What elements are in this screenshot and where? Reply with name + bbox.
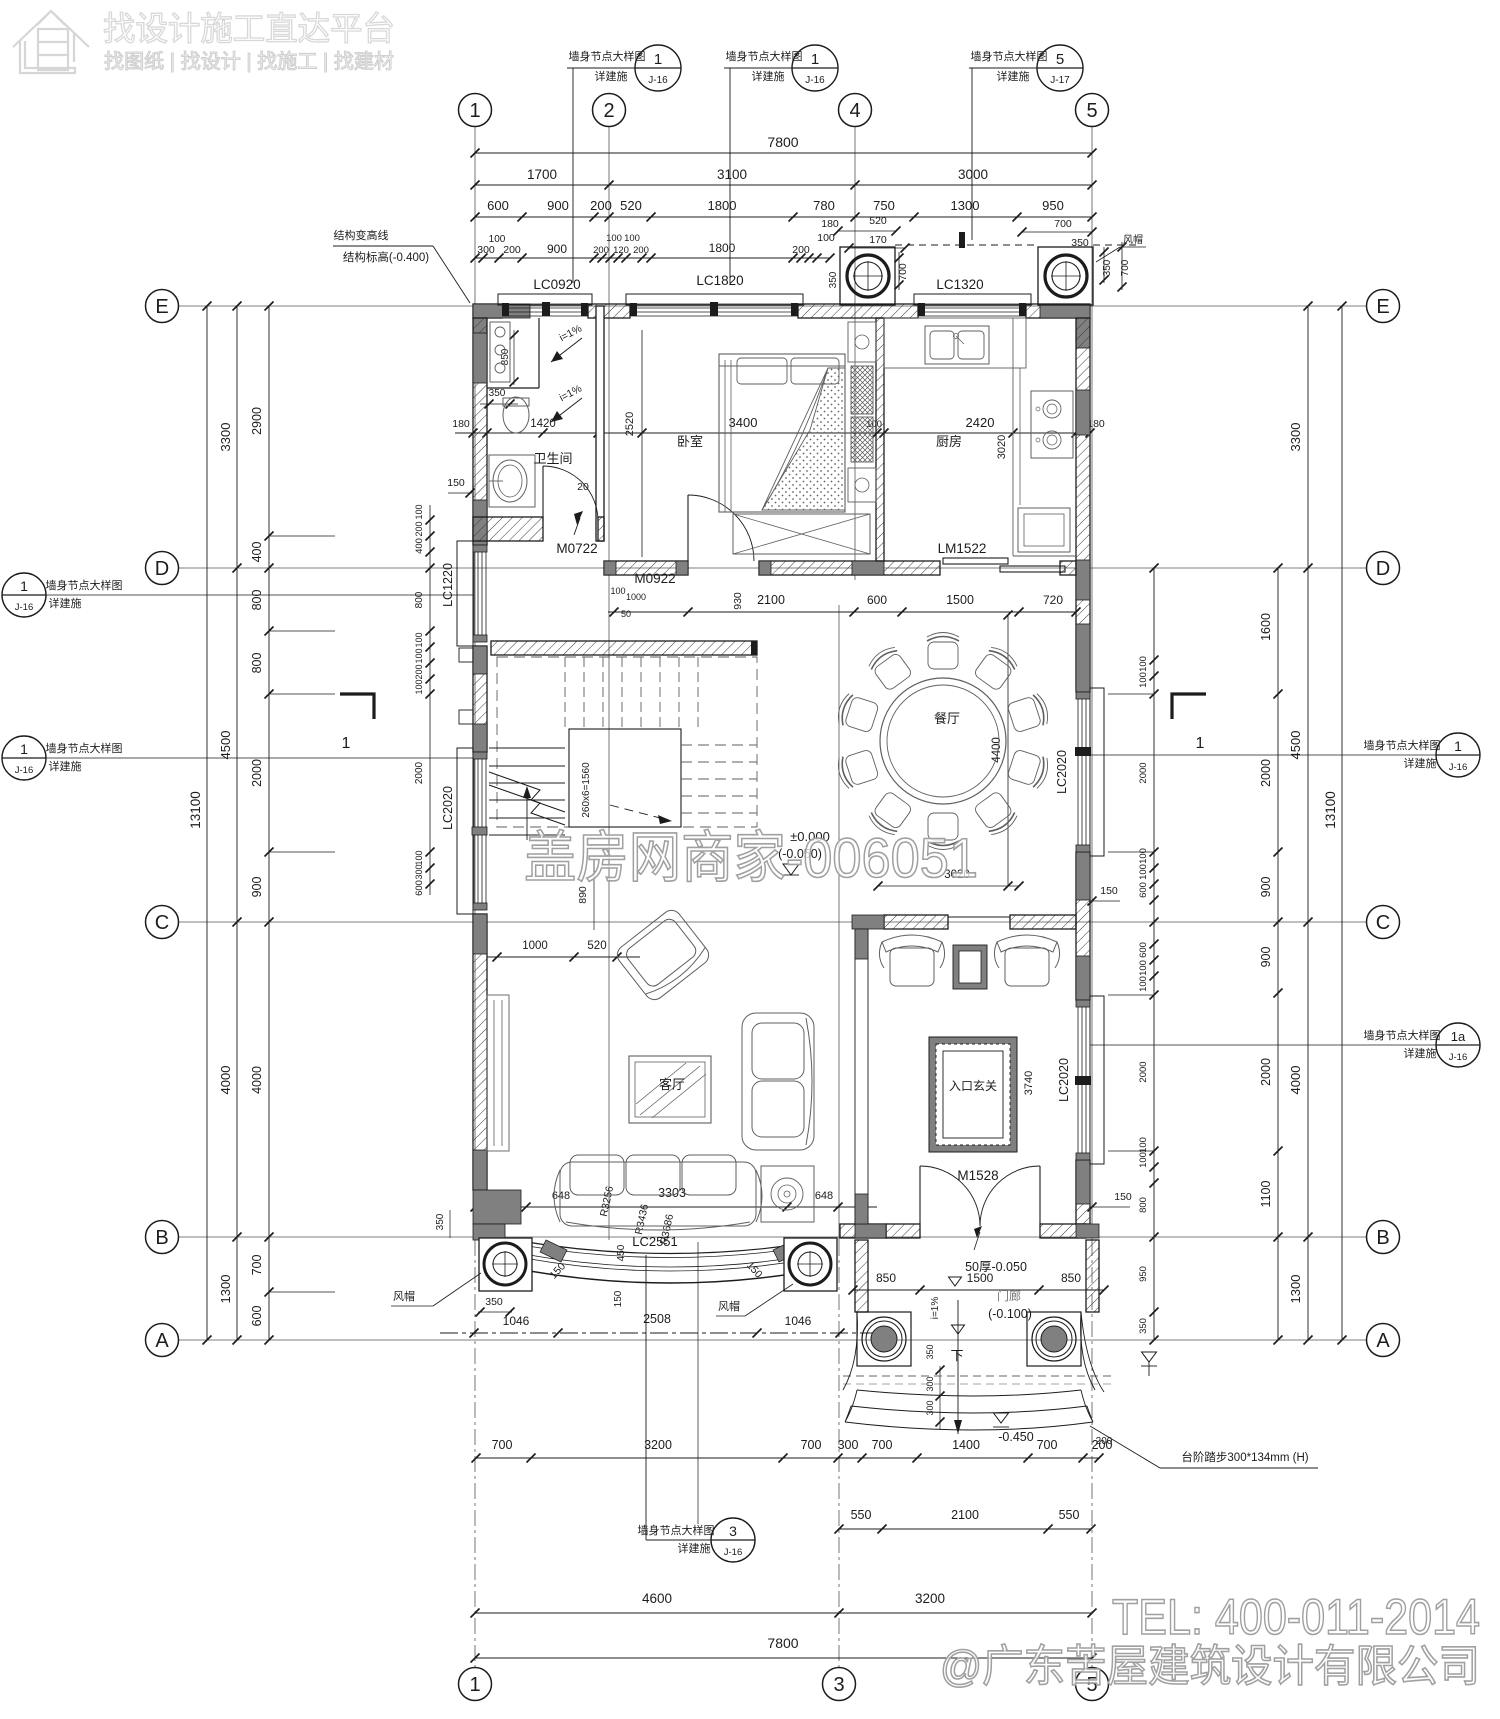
svg-text:200: 200 bbox=[414, 664, 424, 679]
dimension col right inner small bbox=[1153, 568, 1155, 1340]
svg-text:3000: 3000 bbox=[958, 167, 988, 182]
svg-text:300: 300 bbox=[477, 244, 495, 256]
dining chairs bbox=[927, 633, 959, 670]
svg-text:100: 100 bbox=[624, 233, 640, 244]
entrance/living partition bbox=[854, 929, 856, 1224]
window LC2020 left bbox=[457, 748, 473, 914]
svg-text:i=1%: i=1% bbox=[930, 1297, 941, 1320]
svg-text:200: 200 bbox=[590, 198, 612, 213]
svg-text:E: E bbox=[155, 296, 168, 318]
svg-text:100: 100 bbox=[1138, 1137, 1149, 1153]
svg-text:B: B bbox=[1376, 1227, 1389, 1249]
axis circle E bbox=[146, 290, 179, 323]
svg-text:900: 900 bbox=[1259, 877, 1273, 898]
svg-text:J-17: J-17 bbox=[1050, 75, 1070, 86]
svg-text:600: 600 bbox=[1138, 942, 1149, 958]
svg-text:100: 100 bbox=[1138, 960, 1149, 976]
entry side table bbox=[953, 945, 987, 989]
stair dashed outline bbox=[497, 657, 757, 827]
svg-text:100: 100 bbox=[414, 632, 424, 647]
kitchen sink bbox=[925, 326, 989, 364]
svg-text:墙身节点大样图: 墙身节点大样图 bbox=[569, 49, 646, 63]
svg-text:5: 5 bbox=[1056, 51, 1064, 68]
svg-text:墙身节点大样图: 墙身节点大样图 bbox=[46, 741, 123, 755]
svg-text:100: 100 bbox=[414, 504, 424, 519]
svg-text:(-0.100): (-0.100) bbox=[988, 1307, 1032, 1321]
svg-text:100: 100 bbox=[414, 648, 424, 663]
wall detail callout bottom 3/J-16 bbox=[711, 1518, 755, 1562]
dim dining 4400 vertical bbox=[1007, 615, 1009, 886]
svg-text:1400: 1400 bbox=[952, 1438, 980, 1452]
svg-text:LC1820: LC1820 bbox=[696, 273, 743, 288]
logo top left bbox=[13, 11, 89, 73]
svg-text:750: 750 bbox=[873, 198, 895, 213]
svg-text:4500: 4500 bbox=[218, 731, 233, 760]
top-left corner column bbox=[473, 304, 530, 318]
radiator cabinet left wall bbox=[487, 995, 509, 1151]
svg-text:950: 950 bbox=[1138, 1266, 1149, 1282]
svg-text:J-16: J-16 bbox=[1449, 1052, 1467, 1063]
svg-text:700: 700 bbox=[1054, 218, 1072, 230]
svg-text:C: C bbox=[155, 912, 169, 934]
svg-text:400: 400 bbox=[250, 542, 264, 563]
axis circle D bbox=[146, 552, 179, 585]
porch column right bbox=[1027, 1312, 1081, 1366]
svg-text:J-16: J-16 bbox=[1449, 762, 1467, 773]
section mark 1 right bbox=[1172, 694, 1206, 719]
svg-text:餐厅: 餐厅 bbox=[934, 711, 960, 726]
svg-text:1300: 1300 bbox=[951, 198, 980, 213]
dimension col right 13100 bbox=[1341, 306, 1343, 1340]
extension ticks left detail bbox=[269, 535, 335, 537]
svg-text:详建施: 详建施 bbox=[997, 69, 1030, 83]
svg-text:1800: 1800 bbox=[709, 241, 736, 255]
svg-text:700: 700 bbox=[1037, 1438, 1058, 1452]
dimension col left overall bbox=[236, 306, 238, 1340]
svg-text:700: 700 bbox=[801, 1438, 822, 1452]
svg-text:B: B bbox=[155, 1227, 168, 1249]
svg-text:LC0920: LC0920 bbox=[533, 277, 580, 292]
svg-text:-0.450: -0.450 bbox=[998, 1430, 1033, 1444]
svg-text:550: 550 bbox=[851, 1508, 872, 1522]
svg-text:A: A bbox=[1376, 1330, 1390, 1352]
svg-text:900: 900 bbox=[250, 877, 264, 898]
svg-text:@广东苦屋建筑设计有限公司: @广东苦屋建筑设计有限公司 bbox=[940, 1642, 1480, 1691]
svg-text:3100: 3100 bbox=[717, 167, 747, 182]
svg-text:J-16: J-16 bbox=[724, 1547, 742, 1558]
svg-text:1: 1 bbox=[342, 735, 351, 752]
svg-text:350: 350 bbox=[485, 1296, 503, 1308]
svg-text:600: 600 bbox=[867, 593, 887, 607]
svg-text:1: 1 bbox=[20, 741, 28, 757]
wall detail callout right B upper bbox=[1436, 1023, 1480, 1067]
svg-text:4000: 4000 bbox=[1288, 1066, 1303, 1095]
dim porch 850/1500/850 bbox=[853, 1289, 1104, 1291]
svg-text:900: 900 bbox=[547, 198, 569, 213]
fridge bbox=[1018, 508, 1070, 552]
exterior wall left (axis 1) bbox=[473, 318, 487, 545]
wall detail callout 1/J-16 bbox=[792, 45, 838, 91]
sliding door LM1522 bbox=[943, 558, 1008, 564]
axis circle 5 bbox=[1076, 1668, 1109, 1701]
dimension col left detail bbox=[268, 306, 270, 1340]
bay column right bbox=[784, 1238, 837, 1291]
axis circle 1 bbox=[459, 94, 492, 127]
svg-text:墙身节点大样图: 墙身节点大样图 bbox=[971, 49, 1048, 63]
svg-text:风帽: 风帽 bbox=[1123, 233, 1143, 246]
svg-text:800: 800 bbox=[414, 591, 425, 608]
interior dim sofa row 648/3303/648 bbox=[475, 1206, 877, 1208]
svg-text:详建施: 详建施 bbox=[1404, 756, 1437, 770]
interior wall D row bbox=[604, 561, 688, 575]
svg-text:3300: 3300 bbox=[1288, 423, 1303, 452]
armchair rotated bbox=[613, 906, 712, 1003]
svg-text:J-16: J-16 bbox=[15, 765, 33, 776]
dimension col right mid bbox=[1277, 568, 1279, 1340]
svg-text:1300: 1300 bbox=[1288, 1275, 1303, 1304]
svg-text:1000: 1000 bbox=[626, 592, 646, 602]
svg-text:100: 100 bbox=[1138, 864, 1149, 880]
svg-text:170: 170 bbox=[869, 234, 887, 246]
axis circle 2 bbox=[593, 94, 626, 127]
stove bbox=[1031, 391, 1073, 458]
axis circle 3 bbox=[823, 1668, 856, 1701]
svg-text:1: 1 bbox=[469, 1674, 480, 1696]
interior wall bathroom right bbox=[596, 306, 604, 541]
svg-text:2000: 2000 bbox=[250, 759, 264, 787]
svg-text:720: 720 bbox=[1043, 593, 1063, 607]
axis circle 4 bbox=[839, 94, 872, 127]
svg-text:700: 700 bbox=[492, 1438, 513, 1452]
svg-text:300: 300 bbox=[925, 1400, 935, 1415]
stair landing dashes right bbox=[681, 745, 757, 813]
porch walls bbox=[855, 1240, 868, 1312]
dashed flue line bbox=[895, 244, 1038, 246]
svg-text:C: C bbox=[1376, 912, 1390, 934]
left wall column blocks bbox=[473, 333, 487, 383]
svg-text:1600: 1600 bbox=[1259, 613, 1273, 641]
svg-text:2100: 2100 bbox=[951, 1508, 979, 1522]
svg-text:3020: 3020 bbox=[996, 435, 1008, 459]
dimension row top small detail bbox=[475, 257, 830, 259]
svg-text:350: 350 bbox=[828, 271, 839, 288]
dimension col left inner small bbox=[429, 505, 431, 895]
svg-text:J-16: J-16 bbox=[805, 75, 825, 86]
svg-text:120: 120 bbox=[613, 245, 629, 256]
svg-text:1: 1 bbox=[1196, 735, 1205, 752]
axis grid lines bbox=[179, 127, 1366, 1667]
svg-text:台阶踏步300*134mm (H): 台阶踏步300*134mm (H) bbox=[1181, 1450, 1308, 1464]
svg-text:50: 50 bbox=[621, 609, 631, 619]
svg-text:3200: 3200 bbox=[915, 1591, 945, 1606]
svg-text:700: 700 bbox=[1120, 259, 1131, 276]
svg-text:520: 520 bbox=[869, 215, 887, 227]
svg-text:350: 350 bbox=[1138, 1318, 1149, 1334]
svg-text:850: 850 bbox=[1061, 1271, 1081, 1285]
bottom wall right of bay (living) bbox=[840, 1224, 886, 1238]
svg-text:600: 600 bbox=[414, 880, 425, 896]
svg-text:100: 100 bbox=[1138, 1152, 1149, 1168]
svg-text:1a: 1a bbox=[1451, 1029, 1466, 1044]
svg-text:TEL: 400-011-2014: TEL: 400-011-2014 bbox=[1112, 1589, 1480, 1645]
svg-text:详建施: 详建施 bbox=[678, 1541, 711, 1555]
svg-text:520: 520 bbox=[587, 940, 606, 952]
svg-text:4500: 4500 bbox=[1288, 731, 1303, 760]
svg-text:600: 600 bbox=[1138, 882, 1149, 898]
svg-text:200: 200 bbox=[503, 244, 521, 256]
axis circle A bbox=[146, 1324, 179, 1357]
svg-text:LM1522: LM1522 bbox=[938, 541, 987, 556]
svg-text:J-16: J-16 bbox=[15, 602, 33, 613]
dimension row top 1700/3100/3000 bbox=[475, 184, 1092, 186]
svg-text:180: 180 bbox=[821, 218, 839, 230]
svg-text:M0922: M0922 bbox=[634, 571, 675, 586]
svg-text:详建施: 详建施 bbox=[49, 759, 82, 773]
wardrobe crosshatch bbox=[851, 366, 873, 414]
svg-text:100: 100 bbox=[610, 586, 625, 596]
svg-text:150: 150 bbox=[1100, 885, 1118, 897]
svg-text:400: 400 bbox=[414, 538, 425, 554]
svg-text:2508: 2508 bbox=[643, 1312, 671, 1326]
svg-text:下: 下 bbox=[950, 1348, 963, 1363]
svg-text:600: 600 bbox=[250, 1306, 264, 1327]
svg-text:LC2020: LC2020 bbox=[441, 786, 455, 830]
svg-text:4: 4 bbox=[849, 100, 860, 122]
wall detail callout right C bbox=[1436, 733, 1480, 777]
svg-text:850: 850 bbox=[500, 348, 511, 365]
svg-text:1000: 1000 bbox=[522, 940, 548, 952]
svg-text:3: 3 bbox=[729, 1523, 737, 1539]
svg-text:900: 900 bbox=[1259, 947, 1273, 968]
porch steps bbox=[843, 1375, 1111, 1377]
svg-text:详建施: 详建施 bbox=[49, 596, 82, 610]
svg-text:300: 300 bbox=[414, 864, 424, 879]
interior wall bedroom/kitchen partition bbox=[876, 318, 884, 561]
chimney flue left (axis 4) bbox=[840, 247, 895, 305]
svg-text:100: 100 bbox=[1138, 656, 1149, 672]
stair break line bbox=[489, 772, 565, 812]
svg-text:3200: 3200 bbox=[644, 1438, 672, 1452]
svg-text:盖房网商家-006051: 盖房网商家-006051 bbox=[524, 826, 978, 889]
svg-text:2520: 2520 bbox=[624, 412, 636, 436]
bed bbox=[719, 354, 845, 512]
svg-text:550: 550 bbox=[1059, 1508, 1080, 1522]
entry armchair right bbox=[994, 935, 1059, 986]
porch down arrow bbox=[957, 1300, 959, 1434]
svg-text:7800: 7800 bbox=[767, 1635, 798, 1651]
axis circle A bbox=[1367, 1324, 1400, 1357]
svg-text:2: 2 bbox=[603, 100, 614, 122]
stair well solid box bbox=[569, 729, 681, 827]
svg-text:150: 150 bbox=[1114, 1191, 1132, 1203]
dimension row top 7800 bbox=[475, 152, 1092, 154]
svg-text:100: 100 bbox=[817, 232, 835, 244]
dims near axis5 top bbox=[1022, 231, 1092, 233]
svg-text:4600: 4600 bbox=[642, 1591, 672, 1606]
section mark 1 left bbox=[340, 694, 374, 719]
svg-text:风帽: 风帽 bbox=[718, 1300, 740, 1313]
svg-text:1420: 1420 bbox=[530, 418, 556, 430]
svg-text:350: 350 bbox=[925, 1344, 935, 1359]
svg-text:1: 1 bbox=[811, 51, 819, 68]
entrance rug bbox=[929, 1037, 1017, 1152]
svg-text:7800: 7800 bbox=[767, 134, 798, 150]
svg-text:客厅: 客厅 bbox=[659, 1077, 685, 1092]
svg-text:1700: 1700 bbox=[527, 167, 557, 182]
svg-text:648: 648 bbox=[815, 1190, 833, 1202]
window LC1820 bbox=[626, 294, 803, 305]
svg-text:180: 180 bbox=[452, 418, 470, 430]
svg-text:950: 950 bbox=[1042, 198, 1064, 213]
axis circle D bbox=[1367, 552, 1400, 585]
top-right corner column bbox=[1040, 304, 1090, 318]
door M0722 bathroom bbox=[543, 466, 598, 521]
porch column left bbox=[857, 1312, 911, 1366]
svg-text:墙身节点大样图: 墙身节点大样图 bbox=[46, 578, 123, 592]
bottom wall entrance with M1528 opening bbox=[886, 1224, 920, 1238]
svg-text:1800: 1800 bbox=[708, 198, 737, 213]
svg-text:1: 1 bbox=[20, 578, 28, 594]
svg-text:1: 1 bbox=[469, 100, 480, 122]
svg-text:4000: 4000 bbox=[218, 1066, 233, 1095]
svg-text:1500: 1500 bbox=[946, 593, 974, 607]
axis circle B bbox=[146, 1221, 179, 1254]
svg-text:13100: 13100 bbox=[188, 791, 203, 829]
interior dim row bathroom/bedroom/kitchen bbox=[455, 432, 1090, 434]
svg-text:4000: 4000 bbox=[250, 1066, 264, 1094]
left wall sill stubs bbox=[459, 648, 473, 662]
interior wall C row (dining/entrance) bbox=[884, 915, 948, 929]
svg-text:找设计施工直达平台: 找设计施工直达平台 bbox=[103, 10, 395, 47]
svg-text:D: D bbox=[1376, 558, 1390, 580]
svg-text:厨房: 厨房 bbox=[936, 434, 962, 449]
svg-text:2000: 2000 bbox=[1259, 759, 1273, 787]
svg-text:结构变高线: 结构变高线 bbox=[334, 228, 389, 242]
svg-text:LC2551: LC2551 bbox=[632, 1234, 678, 1249]
svg-text:260x6=1560: 260x6=1560 bbox=[581, 762, 592, 818]
svg-text:1046: 1046 bbox=[785, 1314, 812, 1328]
svg-text:2420: 2420 bbox=[966, 415, 995, 430]
svg-text:350: 350 bbox=[435, 1213, 446, 1230]
sofa long bottom bbox=[554, 1155, 762, 1230]
svg-text:800: 800 bbox=[250, 590, 264, 611]
interior dim living room bbox=[487, 956, 640, 958]
window LC1320 bbox=[914, 294, 1031, 305]
dimension col left 13100 bbox=[206, 306, 208, 1340]
svg-text:300: 300 bbox=[838, 1438, 859, 1452]
bedside units bbox=[848, 322, 876, 362]
stair direction dashes bbox=[610, 805, 668, 820]
svg-text:520: 520 bbox=[620, 198, 642, 213]
wash basin bbox=[489, 455, 535, 507]
interior dim row under D bbox=[608, 611, 1076, 613]
chimney flue right (axis 5) bbox=[1038, 247, 1093, 305]
svg-text:墙身节点大样图: 墙身节点大样图 bbox=[638, 1523, 715, 1537]
svg-text:3300: 3300 bbox=[218, 423, 233, 452]
svg-text:M1528: M1528 bbox=[957, 1168, 998, 1183]
svg-text:2100: 2100 bbox=[757, 593, 785, 607]
svg-text:1: 1 bbox=[654, 51, 662, 68]
svg-text:LC2020: LC2020 bbox=[1055, 750, 1069, 794]
door M1528 entrance double bbox=[919, 1166, 921, 1224]
svg-text:2000: 2000 bbox=[1138, 762, 1149, 783]
svg-text:结构标高(-0.400): 结构标高(-0.400) bbox=[343, 250, 429, 264]
svg-text:E: E bbox=[1376, 296, 1389, 318]
svg-text:930: 930 bbox=[732, 592, 744, 610]
svg-text:13100: 13100 bbox=[1323, 791, 1338, 829]
svg-text:100: 100 bbox=[606, 233, 622, 244]
svg-text:700: 700 bbox=[872, 1438, 893, 1452]
axis circle E bbox=[1367, 290, 1400, 323]
svg-text:3400: 3400 bbox=[729, 415, 758, 430]
svg-text:1300: 1300 bbox=[218, 1275, 233, 1304]
stair treads upper flight bbox=[565, 657, 698, 727]
loveseat right bbox=[742, 1013, 814, 1150]
kitchen counter top bbox=[884, 318, 1026, 368]
bottom-left corner column bbox=[473, 1190, 521, 1224]
svg-text:100: 100 bbox=[414, 850, 424, 865]
exterior wall top (E axis) bbox=[473, 304, 502, 318]
svg-text:M0722: M0722 bbox=[556, 541, 597, 556]
svg-text:2000: 2000 bbox=[1259, 1058, 1273, 1086]
extension ticks right inner bbox=[1108, 693, 1154, 695]
svg-text:LC1320: LC1320 bbox=[936, 277, 983, 292]
axis circle C bbox=[146, 906, 179, 939]
dim row 1046/2508/1046 bbox=[440, 1332, 877, 1334]
stair lower flight treads bbox=[489, 748, 565, 835]
bay window curved band LC2551 bbox=[520, 1241, 820, 1254]
svg-text:卧室: 卧室 bbox=[677, 434, 703, 449]
svg-text:700: 700 bbox=[250, 1255, 264, 1276]
svg-text:D: D bbox=[155, 558, 169, 580]
wall detail callout 1/J-16 bbox=[635, 45, 681, 91]
svg-text:卫生间: 卫生间 bbox=[533, 451, 572, 466]
dims near axis4 chimney bbox=[838, 230, 896, 232]
svg-text:900: 900 bbox=[547, 242, 567, 256]
svg-text:5: 5 bbox=[1086, 100, 1097, 122]
svg-text:100: 100 bbox=[1138, 672, 1149, 688]
dimension row bottom 7800 bbox=[475, 1657, 1092, 1659]
svg-text:1: 1 bbox=[1454, 738, 1462, 754]
svg-text:2000: 2000 bbox=[414, 761, 425, 784]
svg-text:风帽: 风帽 bbox=[393, 1290, 415, 1303]
axis circle C bbox=[1367, 906, 1400, 939]
window LC0920 bbox=[498, 294, 592, 305]
svg-text:200: 200 bbox=[593, 245, 609, 256]
right wall column blocks bbox=[1076, 390, 1090, 435]
svg-text:墙身节点大样图: 墙身节点大样图 bbox=[1364, 738, 1441, 752]
svg-text:100: 100 bbox=[1138, 976, 1149, 992]
svg-text:LC2020: LC2020 bbox=[1057, 1058, 1071, 1102]
dimension row porch 700/3200/700/300/700/1400/700/200 bbox=[476, 1457, 1099, 1459]
svg-text:150: 150 bbox=[447, 477, 465, 489]
svg-text:4400: 4400 bbox=[991, 737, 1003, 763]
stair up arrow bbox=[526, 790, 528, 840]
svg-text:详建施: 详建施 bbox=[1404, 1046, 1437, 1060]
door M0922 bedroom bbox=[688, 495, 754, 561]
tv mirror rect bbox=[629, 1056, 711, 1123]
bay column left bbox=[479, 1238, 532, 1291]
axis circle 5 bbox=[1076, 94, 1109, 127]
exterior wall right (axis 5) bbox=[1076, 318, 1090, 692]
dimension row bottom 4600/3200 bbox=[475, 1612, 1092, 1614]
svg-text:350: 350 bbox=[489, 388, 506, 399]
entry armchair left bbox=[879, 935, 944, 986]
svg-text:墙身节点大样图: 墙身节点大样图 bbox=[726, 49, 803, 63]
interior wall stair top bbox=[491, 641, 757, 655]
svg-text:A: A bbox=[155, 1330, 169, 1352]
svg-text:150: 150 bbox=[613, 1290, 624, 1307]
